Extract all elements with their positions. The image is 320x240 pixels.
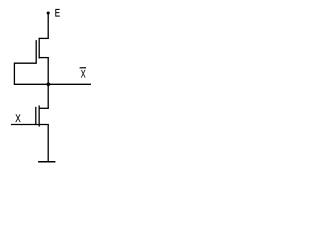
node E supply terminal dot: [47, 11, 50, 14]
transistor T1 gate bar and gate wire to output node: [14, 40, 36, 84]
transistor T2 channel bar: [38, 105, 40, 126]
wire output line: [14, 83, 91, 85]
transistor T1 (depletion load) drain stub: [39, 37, 49, 39]
wire input/source line: [11, 124, 49, 126]
wire supply rail: [47, 13, 49, 38]
transistor T2 gate bar: [35, 107, 37, 125]
transistor T1 source stub: [39, 57, 49, 59]
svg-text:X: X: [81, 68, 86, 80]
node X-bar output junction dot: [46, 82, 50, 86]
svg-text:E: E: [55, 7, 60, 20]
wire T1 source to output node: [47, 58, 49, 85]
transistor T1 channel bar: [38, 38, 40, 59]
ground: [38, 161, 55, 163]
overbar of X-bar: [80, 67, 87, 69]
svg-text:X: X: [15, 113, 21, 125]
wire output node to T2 drain: [47, 84, 49, 108]
transistor T2 (driver) drain stub: [39, 107, 49, 109]
wire T2 source to ground: [47, 125, 49, 162]
